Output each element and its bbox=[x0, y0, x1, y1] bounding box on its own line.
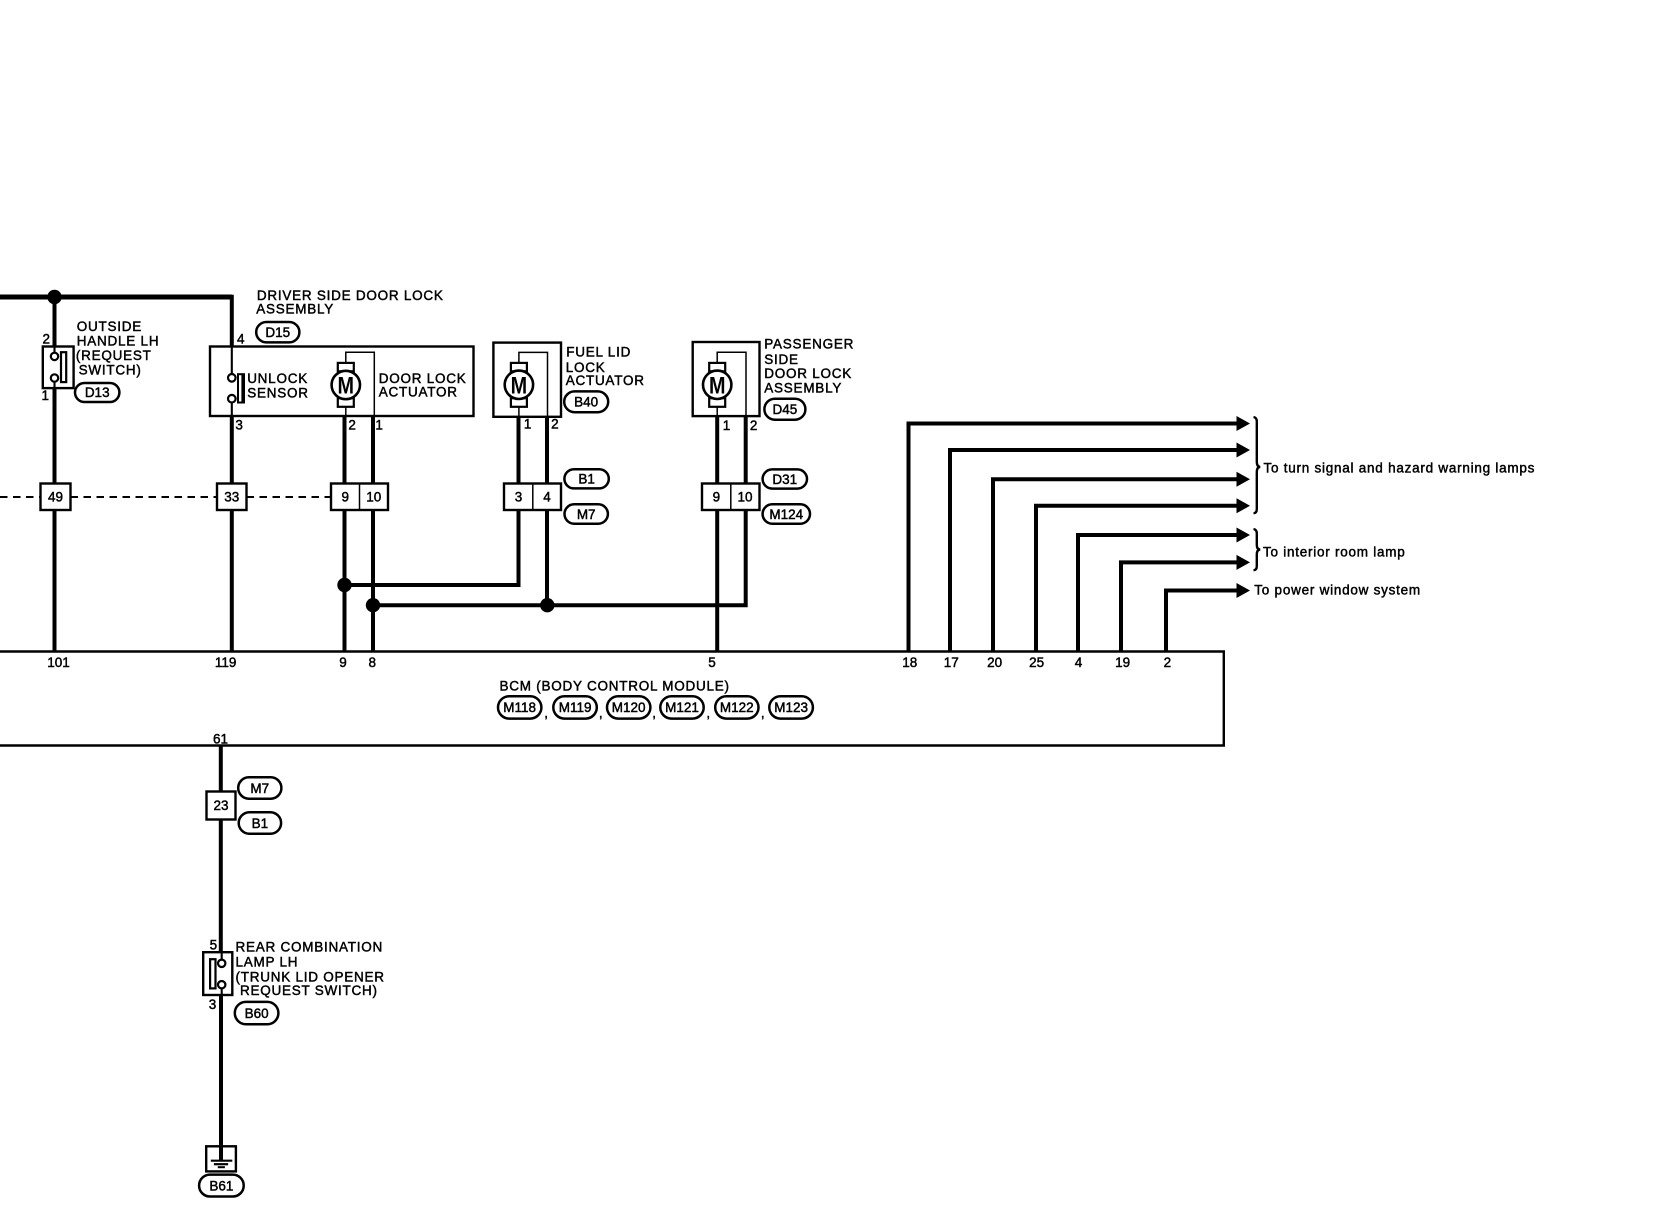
pin 5 label (B60) bbox=[210, 937, 218, 952]
svg-text:REQUEST SWITCH): REQUEST SWITCH) bbox=[240, 983, 378, 998]
pin 4 label (D15) bbox=[237, 331, 245, 346]
svg-text:M119: M119 bbox=[559, 700, 592, 715]
comma bbox=[652, 706, 656, 721]
wire: connector 10 to BCM pin 8 bbox=[371, 510, 375, 652]
svg-text:LAMP LH: LAMP LH bbox=[236, 955, 299, 970]
brace: interior room lamp group bbox=[1254, 529, 1261, 570]
svg-text:To power window system: To power window system bbox=[1254, 583, 1421, 598]
wire: BCM pin 17 to turn signal lamps arrow 2 bbox=[950, 443, 1250, 652]
wire: BCM pin 61 to connector 23 bbox=[219, 746, 223, 792]
svg-text:4: 4 bbox=[543, 490, 551, 505]
wire: bus drop to D15 pin 4 bbox=[230, 295, 234, 347]
BCM pin 8 label bbox=[369, 655, 377, 670]
wire: D45 pin 1 to connector 9 bbox=[715, 416, 719, 483]
svg-text:,: , bbox=[761, 706, 765, 721]
harness dashed line bbox=[0, 496, 331, 498]
svg-text:DOOR LOCK: DOOR LOCK bbox=[764, 366, 852, 381]
BCM pin 119 label bbox=[215, 655, 237, 670]
comma bbox=[706, 706, 710, 721]
wire: connector 23 to B60 pin 5 bbox=[219, 820, 223, 953]
wire: unlock branch to passenger pin 2 bbox=[373, 510, 746, 605]
svg-text:BCM (BODY CONTROL MODULE): BCM (BODY CONTROL MODULE) bbox=[500, 679, 730, 694]
wire: passenger connector 9 to BCM pin 5 bbox=[715, 510, 719, 652]
svg-text:UNLOCK: UNLOCK bbox=[247, 371, 308, 386]
switch B60 contacts bbox=[210, 952, 225, 995]
BCM pin 20 label bbox=[987, 655, 1002, 670]
svg-text:23: 23 bbox=[213, 798, 228, 813]
connector oval B61 (ground) bbox=[199, 1175, 244, 1197]
svg-text:OUTSIDE: OUTSIDE bbox=[77, 319, 142, 334]
svg-text:SWITCH): SWITCH) bbox=[79, 362, 142, 377]
svg-text:18: 18 bbox=[902, 655, 917, 670]
pin 1 label (B40) bbox=[524, 417, 532, 432]
label: UNLOCK SENSOR bbox=[247, 371, 309, 400]
svg-text:1: 1 bbox=[524, 417, 532, 432]
svg-text:M7: M7 bbox=[577, 507, 596, 522]
svg-text:B1: B1 bbox=[252, 816, 269, 831]
BCM pin 17 label bbox=[944, 655, 959, 670]
svg-text:M121: M121 bbox=[665, 700, 699, 715]
pin 2 label (B40) bbox=[551, 417, 559, 432]
svg-text:M: M bbox=[709, 372, 726, 399]
harness connector 9/10 (passenger) bbox=[702, 484, 760, 511]
svg-text:FUEL LID: FUEL LID bbox=[566, 345, 631, 360]
BCM (body control module) box bbox=[0, 652, 1224, 746]
svg-text:9: 9 bbox=[339, 655, 347, 670]
connector oval M123 bbox=[769, 696, 813, 718]
connector oval M122 bbox=[715, 696, 758, 718]
brace: turn signal group bbox=[1254, 417, 1261, 513]
connector oval B1 (fuel branch) bbox=[564, 469, 608, 488]
svg-text:M118: M118 bbox=[503, 700, 536, 715]
wire: D15 pin 1 to connector 10 bbox=[371, 416, 375, 484]
comma bbox=[544, 706, 548, 721]
BCM pin 5 label bbox=[708, 655, 716, 670]
svg-text:M7: M7 bbox=[250, 781, 269, 796]
svg-text:2: 2 bbox=[750, 418, 758, 433]
wire: D45 pin 2 to connector 10 bbox=[744, 416, 748, 483]
wire: fuel connector 4 to unlock branch bbox=[545, 510, 549, 605]
svg-text:3: 3 bbox=[515, 490, 523, 505]
svg-text:(REQUEST: (REQUEST bbox=[76, 348, 152, 363]
svg-text:M: M bbox=[511, 372, 528, 399]
wire: branch to fuel lid pin 1 bbox=[345, 510, 519, 585]
label: OUTSIDE HANDLE LH (REQUEST SWITCH) bbox=[76, 319, 159, 377]
svg-text:M123: M123 bbox=[774, 700, 808, 715]
svg-text:17: 17 bbox=[944, 655, 959, 670]
pin 1 label (D45) bbox=[723, 418, 731, 433]
svg-text:B1: B1 bbox=[578, 472, 595, 487]
svg-text:61: 61 bbox=[213, 732, 228, 747]
wire: D15 pin 2 to connector 9 bbox=[343, 416, 347, 484]
svg-text:2: 2 bbox=[42, 331, 50, 346]
comma bbox=[761, 706, 765, 721]
svg-text:2: 2 bbox=[1164, 655, 1172, 670]
connector oval D31 bbox=[763, 469, 807, 488]
wire: D15 pin 3 to connector 33 bbox=[230, 416, 234, 484]
junction: node to unlock branch bbox=[366, 598, 380, 612]
switch D13 contacts bbox=[51, 347, 66, 389]
svg-text:19: 19 bbox=[1115, 655, 1130, 670]
svg-text:2: 2 bbox=[551, 417, 559, 432]
BCM pin 101 label bbox=[47, 655, 70, 670]
BCM pin 18 label bbox=[902, 655, 917, 670]
wire: BCM pin 18 to turn signal lamps arrow 1 bbox=[909, 416, 1251, 652]
wire: connector 49 to BCM pin 101 bbox=[53, 510, 57, 652]
junction: fuel pin 2 on unlock branch bbox=[540, 598, 554, 612]
wire: D13 pin 1 to connector 49 bbox=[53, 388, 57, 483]
wire: connector 9 to BCM pin 9 bbox=[343, 510, 347, 652]
label: REAR COMBINATION LAMP LH (TRUNK LID OPENER REQUEST SWITCH) bbox=[236, 940, 385, 999]
net label: To turn signal and hazard warning lamps bbox=[1264, 461, 1536, 476]
svg-text:D31: D31 bbox=[772, 472, 797, 487]
svg-text:5: 5 bbox=[210, 937, 218, 952]
svg-text:3: 3 bbox=[235, 417, 243, 432]
svg-text:10: 10 bbox=[366, 490, 381, 505]
label: BCM (BODY CONTROL MODULE) bbox=[500, 679, 730, 694]
svg-text:SENSOR: SENSOR bbox=[247, 385, 309, 400]
svg-text:10: 10 bbox=[737, 490, 752, 505]
svg-text:B60: B60 bbox=[245, 1006, 269, 1021]
svg-text:,: , bbox=[652, 706, 656, 721]
svg-text:2: 2 bbox=[348, 417, 356, 432]
connector oval M120 bbox=[607, 696, 650, 718]
svg-text:8: 8 bbox=[369, 655, 377, 670]
svg-text:25: 25 bbox=[1029, 655, 1044, 670]
connector oval M119 bbox=[553, 696, 597, 718]
pin 3 label (D15) bbox=[235, 417, 243, 432]
connector oval D13 bbox=[75, 383, 119, 402]
svg-text:4: 4 bbox=[1075, 655, 1083, 670]
wire: BCM pin 20 to turn signal lamps arrow 3 bbox=[993, 472, 1250, 652]
svg-text:PASSENGER: PASSENGER bbox=[764, 336, 854, 351]
svg-text:ASSEMBLY: ASSEMBLY bbox=[764, 380, 842, 395]
motor M driver door lock actuator bbox=[332, 352, 375, 416]
harness connector 49 bbox=[41, 484, 71, 511]
pin 2 label (D45) bbox=[750, 418, 758, 433]
connector oval M7 (fuel branch) bbox=[565, 504, 608, 523]
harness connector 9/10 (driver) bbox=[331, 484, 388, 511]
svg-text:SIDE: SIDE bbox=[764, 352, 799, 367]
svg-text:,: , bbox=[544, 706, 548, 721]
svg-text:,: , bbox=[599, 706, 603, 721]
motor M passenger door lock actuator bbox=[703, 352, 746, 416]
connector oval B1 (trunk branch) bbox=[239, 812, 281, 834]
harness connector 3/4 (fuel) bbox=[504, 484, 561, 511]
svg-text:REAR COMBINATION: REAR COMBINATION bbox=[236, 940, 384, 955]
wire: connector 33 to BCM pin 119 bbox=[230, 510, 234, 652]
label: PASSENGER SIDE DOOR LOCK ASSEMBLY bbox=[764, 336, 854, 395]
svg-text:20: 20 bbox=[987, 655, 1002, 670]
wire: BCM pin 19 to interior room lamp arrow 2 bbox=[1121, 555, 1250, 652]
comma bbox=[599, 706, 603, 721]
wire: power bus top bbox=[0, 295, 232, 300]
fuel lid lock actuator B40 box bbox=[493, 343, 561, 417]
passenger side door lock assembly D45 box bbox=[693, 342, 760, 416]
svg-text:1: 1 bbox=[41, 388, 49, 403]
svg-text:,: , bbox=[706, 706, 710, 721]
harness connector 33 bbox=[217, 484, 247, 511]
svg-text:ACTUATOR: ACTUATOR bbox=[379, 384, 458, 399]
svg-text:119: 119 bbox=[215, 655, 237, 670]
net label: To interior room lamp bbox=[1263, 545, 1406, 560]
pin 2 label (D13) bbox=[42, 331, 50, 346]
svg-text:33: 33 bbox=[224, 490, 239, 505]
connector oval M118 bbox=[498, 696, 541, 718]
net label: To power window system bbox=[1254, 583, 1421, 598]
svg-text:M124: M124 bbox=[769, 507, 803, 522]
svg-text:1: 1 bbox=[375, 417, 383, 432]
svg-text:D13: D13 bbox=[85, 385, 110, 400]
svg-text:9: 9 bbox=[342, 490, 350, 505]
wire: B40 pin 1 to connector 3 bbox=[517, 417, 521, 484]
BCM pin 2 label bbox=[1164, 655, 1172, 670]
svg-text:ASSEMBLY: ASSEMBLY bbox=[256, 302, 334, 317]
BCM pin 25 label bbox=[1029, 655, 1044, 670]
svg-text:ACTUATOR: ACTUATOR bbox=[566, 373, 645, 388]
svg-text:M122: M122 bbox=[720, 700, 754, 715]
svg-text:M120: M120 bbox=[612, 700, 646, 715]
svg-text:5: 5 bbox=[708, 655, 716, 670]
switch B60 trunk lid opener request switch box bbox=[203, 952, 232, 995]
svg-text:D45: D45 bbox=[773, 402, 798, 417]
pin 3 label (B60) bbox=[209, 997, 217, 1012]
switch D13 outside handle box bbox=[43, 347, 74, 389]
harness connector 23 bbox=[207, 792, 236, 820]
BCM pin 4 label bbox=[1075, 655, 1083, 670]
svg-text:M: M bbox=[338, 373, 355, 400]
svg-text:4: 4 bbox=[237, 331, 245, 346]
svg-text:9: 9 bbox=[713, 490, 721, 505]
svg-text:HANDLE LH: HANDLE LH bbox=[77, 333, 160, 348]
wire: BCM pin 25 to turn signal lamps arrow 4 bbox=[1036, 498, 1250, 651]
label: FUEL LID LOCK ACTUATOR bbox=[566, 345, 645, 389]
connector oval D45 bbox=[764, 399, 805, 420]
motor M fuel lid lock actuator bbox=[505, 352, 548, 416]
pin 2 label (D15) bbox=[348, 417, 356, 432]
connector oval M7 (trunk branch) bbox=[238, 777, 281, 798]
BCM pin 19 label bbox=[1115, 655, 1130, 670]
connector oval M124 bbox=[763, 504, 810, 523]
svg-text:49: 49 bbox=[48, 490, 63, 505]
wire: B60 pin 3 to ground bbox=[219, 995, 223, 1146]
label: DOOR LOCK ACTUATOR bbox=[379, 371, 467, 399]
pin 1 label (D15) bbox=[375, 417, 383, 432]
svg-text:To interior room lamp: To interior room lamp bbox=[1263, 545, 1406, 560]
wire: BCM pin 4 to interior room lamp arrow 1 bbox=[1078, 528, 1250, 652]
BCM pin 9 label bbox=[339, 655, 347, 670]
unlock sensor contacts (D15) bbox=[228, 347, 244, 417]
pin 1 label (D13) bbox=[41, 388, 49, 403]
connector oval B40 bbox=[564, 391, 608, 412]
label: DRIVER SIDE DOOR LOCK ASSEMBLY bbox=[256, 288, 443, 317]
svg-text:101: 101 bbox=[47, 655, 70, 670]
svg-text:B40: B40 bbox=[574, 394, 598, 409]
svg-text:D15: D15 bbox=[265, 325, 290, 340]
BCM pin 61 label bbox=[213, 732, 228, 747]
svg-text:3: 3 bbox=[209, 997, 217, 1012]
driver side door lock assembly D15 box bbox=[210, 347, 474, 417]
connector oval D15 bbox=[256, 322, 299, 342]
junction: bus / outside handle drop bbox=[47, 290, 61, 304]
connector oval M121 bbox=[660, 696, 703, 718]
wire: B40 pin 2 to connector 4 bbox=[545, 417, 549, 484]
svg-text:1: 1 bbox=[723, 418, 731, 433]
junction: node to fuel lid actuator bbox=[337, 578, 351, 592]
svg-text:To turn signal and hazard warn: To turn signal and hazard warning lamps bbox=[1264, 461, 1536, 476]
ground symbol bbox=[206, 1146, 236, 1171]
wire: bus to D13 pin 2 bbox=[53, 294, 57, 347]
connector oval B60 bbox=[235, 1002, 279, 1024]
svg-text:B61: B61 bbox=[209, 1178, 233, 1193]
wire: BCM pin 2 to power window system arrow bbox=[1166, 583, 1250, 652]
